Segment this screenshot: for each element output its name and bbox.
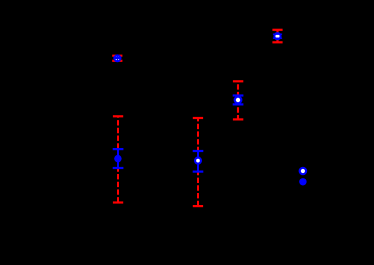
point 4: solid marker	[114, 155, 121, 162]
point 3: blue error bar	[233, 96, 244, 105]
point 3: open marker	[235, 97, 242, 104]
point 5: open marker	[195, 158, 201, 164]
point 7: solid marker	[299, 178, 306, 185]
point 1: open marker	[114, 55, 120, 61]
point 2: red error bar	[272, 30, 282, 43]
point 5: blue error bar	[193, 151, 204, 172]
point 6: open marker	[300, 168, 306, 174]
point 1: blue inner error bar cross	[113, 55, 121, 62]
point 4: blue error bar	[113, 149, 124, 168]
point 1: red error bar	[112, 56, 122, 61]
point 4: red dashed error bar	[113, 116, 123, 202]
point 3: red dashed error bar	[233, 81, 243, 119]
point 5: red dashed error bar	[193, 118, 203, 206]
point 2: open marker	[274, 33, 280, 39]
point 2: blue inner caps	[273, 34, 282, 38]
